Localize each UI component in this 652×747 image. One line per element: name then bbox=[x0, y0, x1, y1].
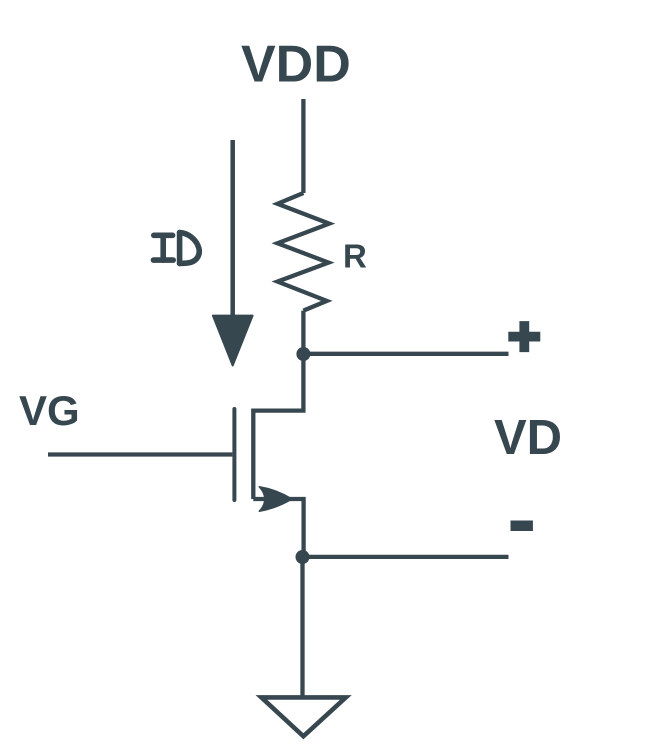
wire drain node to + terminal bbox=[303, 352, 508, 356]
current arrow ID (head) bbox=[213, 316, 253, 366]
source lead: channel right, then down to node bbox=[253, 499, 303, 557]
source arrowhead bbox=[259, 487, 292, 511]
label - polarity bbox=[511, 521, 533, 532]
ground bbox=[261, 697, 345, 736]
svg-text:VD: VD bbox=[494, 411, 562, 465]
node source junction bbox=[296, 550, 310, 564]
wire source node to ground bbox=[300, 557, 304, 696]
label + polarity bbox=[508, 321, 540, 352]
svg-text:VG: VG bbox=[19, 387, 80, 434]
label ID (drain current), hand-style glyphs bbox=[154, 233, 200, 264]
svg-text:VDD: VDD bbox=[241, 36, 351, 94]
wire resistor to drain node bbox=[301, 311, 305, 354]
node drain junction bbox=[296, 347, 310, 361]
wire gate lead bbox=[48, 452, 232, 456]
transistor M1 (NMOS) bbox=[234, 354, 303, 557]
wire VDD to resistor R bbox=[301, 99, 305, 193]
svg-text:R: R bbox=[343, 238, 367, 275]
drain lead: node down, over to channel bbox=[253, 354, 303, 411]
wire source node to - terminal bbox=[303, 555, 509, 559]
channel bar bbox=[251, 409, 255, 500]
current arrow ID (shaft) bbox=[230, 140, 235, 317]
resistor R bbox=[278, 193, 330, 311]
gate bar bbox=[232, 409, 236, 500]
